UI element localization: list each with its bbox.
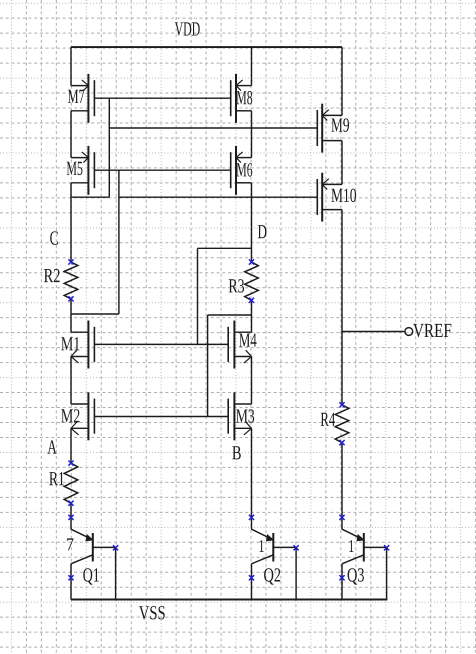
wire VDD to M9 source — [341, 47, 343, 115]
wire R3 bottom branch to M2/M3 gate line — [208, 314, 252, 316]
wire M1 source to M2 drain — [70, 357, 72, 405]
resistor R2 — [44, 259, 78, 301]
wire node B: M3 source to Q2 emitter — [251, 428, 253, 512]
wire R2 bottom to M1 drain — [70, 299, 72, 332]
wire M7 drain to M5 source — [70, 111, 72, 158]
value label: emitter area ratio 1 of Q2 — [260, 540, 264, 552]
transistor Q3 — [339, 512, 389, 600]
wire M9 drain to M10 source — [341, 141, 343, 185]
node C — [50, 231, 58, 244]
ground VSS label — [139, 606, 165, 620]
transistor M3 — [228, 392, 254, 440]
node A — [47, 440, 56, 453]
wire R1 bottom to Q1 emitter — [70, 503, 72, 512]
wire M1 gate to M4 gate — [94, 343, 228, 345]
value label: emitter area ratio 1 of Q3 — [349, 540, 353, 552]
wire R4 bottom to Q3 emitter — [341, 443, 343, 512]
node VREF label — [413, 324, 451, 337]
value label: emitter area ratio 7 of Q1 — [67, 538, 73, 550]
wire VDD to M7 source — [70, 47, 72, 86]
resistor R1 — [49, 461, 78, 506]
ground VSS rail — [71, 599, 387, 601]
wire R3 bottom to M4 drain — [251, 300, 253, 332]
wire cascode bias vertical from M5 gate line down to R2 bottom — [118, 170, 120, 314]
node B — [232, 446, 241, 459]
wire VREF tap — [342, 331, 405, 333]
transistor M6 — [231, 146, 253, 195]
wire R2 bottom branch — [71, 313, 119, 315]
wire gate bias vertical from M7 gate line down to node C tap — [108, 98, 110, 197]
power VDD rail — [71, 46, 342, 48]
transistor M9 — [317, 104, 349, 153]
wire M10 drain to R4 top (VREF node) — [341, 210, 343, 405]
transistor M10 — [317, 173, 356, 222]
transistor M4 — [228, 321, 256, 369]
wire to M10 gate — [119, 196, 317, 198]
transistor M2 — [61, 392, 94, 440]
wire to M9 gate — [109, 127, 317, 129]
transistor Q1 — [68, 512, 118, 600]
terminal VREF pin circle — [405, 328, 413, 336]
wire node A: M2 source to R1 top — [70, 428, 72, 463]
transistor M7 — [68, 74, 94, 123]
transistor M1 — [61, 321, 94, 369]
wire node D: M6 drain to R3 top — [251, 183, 253, 262]
power VDD label — [175, 22, 200, 35]
resistor R3 — [229, 259, 259, 303]
wire node C: M5 drain to R2 top — [70, 183, 72, 262]
wire M5 gate to M6 gate — [94, 169, 230, 171]
wire VDD to M8 source — [251, 47, 253, 86]
wire M2 gate to M3 gate — [94, 416, 228, 418]
wire node C tap to gate bias vertical — [71, 196, 109, 198]
wire M8 drain to M6 source — [251, 111, 253, 158]
transistor M5 — [67, 146, 95, 195]
transistor M8 — [231, 74, 253, 123]
transistor Q2 — [249, 512, 299, 600]
wire M4 source to M3 drain — [251, 357, 253, 405]
node D — [258, 225, 267, 238]
resistor R4 — [321, 402, 349, 445]
wire M7 gate to M8 gate — [94, 97, 230, 99]
wire node D branch to M1/M4 gate line — [198, 247, 252, 249]
